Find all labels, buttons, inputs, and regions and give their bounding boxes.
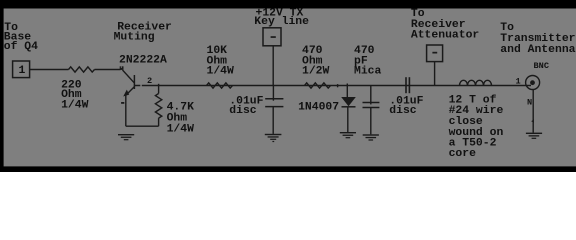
frame top band	[0, 0, 576, 9]
+12V box arrow glyph	[271, 36, 276, 38]
svg-text:1: 1	[516, 76, 521, 86]
svg-text:2N2222A: 2N2222A	[119, 54, 167, 66]
BNC connector circle	[526, 76, 540, 90]
capacitor C3 series right plate	[408, 77, 410, 93]
frame left bar	[0, 0, 4, 172]
wire box to R1	[30, 69, 69, 71]
wire attenuator box down to main	[434, 62, 436, 86]
BNC line tick	[531, 119, 534, 123]
resistor R2 4.7K wire bottom	[158, 118, 160, 126]
svg-text:1/2W: 1/2W	[302, 65, 330, 77]
ground (C2)	[363, 134, 379, 135]
resistor R2 4.7K zigzag vertical	[155, 94, 161, 119]
frame bottom band	[0, 166, 576, 172]
svg-text:Attenuator: Attenuator	[411, 30, 480, 42]
terminal box 1 (to base of Q4)	[13, 61, 30, 78]
transistor Q1 emitter arrow	[123, 90, 129, 97]
svg-text:and Antenna: and Antenna	[500, 44, 575, 56]
+12V key line box	[263, 28, 281, 46]
svg-text:1: 1	[19, 65, 26, 77]
svg-text:1/4W: 1/4W	[61, 99, 89, 111]
svg-text:Key line: Key line	[254, 16, 309, 28]
svg-text:Mica: Mica	[354, 65, 382, 77]
svg-text:disc: disc	[389, 105, 417, 117]
resistor R3 10K zigzag	[207, 83, 233, 88]
transistor Q1 emitter wire down	[125, 95, 127, 126]
ground (BNC)	[526, 133, 542, 134]
diode D1 cathode bar	[342, 106, 356, 108]
junction tick	[337, 84, 339, 87]
svg-text:2: 2	[147, 76, 152, 86]
diode D1 triangle	[341, 97, 356, 106]
ground (Q1 emitter)	[118, 134, 134, 135]
transistor Q1 base pin marker	[120, 66, 124, 70]
main wire collector to BNC	[134, 85, 531, 87]
svg-text:BNC: BNC	[534, 61, 549, 71]
wire R1 to Q1 base	[95, 69, 121, 71]
capacitor C1 .01uF wire down	[272, 86, 274, 101]
transistor Q1 base lead diagonal	[123, 70, 135, 83]
svg-text:of Q4: of Q4	[4, 41, 38, 53]
svg-text:1N4007: 1N4007	[298, 102, 339, 114]
transistor Q1 base bar	[133, 75, 135, 89]
diode D1 wire from main	[346, 84, 348, 98]
svg-text:Muting: Muting	[114, 31, 155, 43]
ground (C1)	[265, 134, 282, 135]
capacitor C2 wire to ground	[370, 108, 372, 135]
svg-text:1/4W: 1/4W	[207, 65, 235, 77]
wire emitter to 4.7K bottom	[126, 125, 159, 127]
inductor L1 coil	[460, 80, 492, 85]
capacitor C2 470pF wire down	[370, 86, 372, 105]
capacitor C2 top plate	[363, 102, 380, 104]
svg-text:disc: disc	[229, 105, 257, 117]
capacitor C1 bottom plate	[265, 106, 283, 108]
transistor Q1 emitter diagonal	[127, 87, 135, 95]
diode D1 wire to ground	[347, 107, 349, 132]
ground (D1)	[340, 132, 356, 133]
resistor R2 4.7K wire top	[158, 84, 160, 94]
attenuator box arrow glyph	[432, 52, 437, 54]
resistor R4 470 Ohm zigzag	[305, 83, 331, 88]
transistor Q1 pin 1 tick	[121, 102, 124, 104]
capacitor C1 wire to ground	[272, 107, 274, 134]
capacitor C3 series left plate	[405, 77, 407, 93]
BNC wire down	[532, 90, 534, 133]
svg-text:core: core	[449, 148, 477, 160]
receiver attenuator box	[427, 45, 443, 62]
svg-text:N: N	[527, 97, 532, 107]
wire +12V box down to main wire	[272, 46, 274, 86]
svg-text:1/4W: 1/4W	[167, 124, 195, 136]
resistor R1 220 Ohm zigzag	[69, 67, 95, 72]
capacitor C1 top plate	[265, 98, 283, 100]
capacitor C2 bottom plate	[363, 107, 380, 109]
BNC center dot	[530, 80, 535, 85]
